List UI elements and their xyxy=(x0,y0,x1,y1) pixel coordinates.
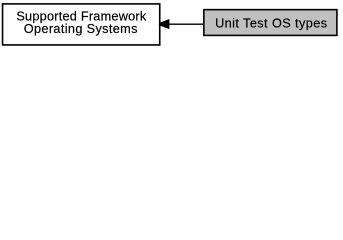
edge wire xyxy=(169,23,204,25)
arrowhead xyxy=(159,19,169,29)
svg-text:Unit Test OS types: Unit Test OS types xyxy=(215,16,327,30)
node box: Unit Test OS types (filled gray) xyxy=(204,10,337,36)
svg-text:Operating Systems: Operating Systems xyxy=(24,22,138,36)
node box: Supported Framework Operating Systems xyxy=(3,4,160,45)
